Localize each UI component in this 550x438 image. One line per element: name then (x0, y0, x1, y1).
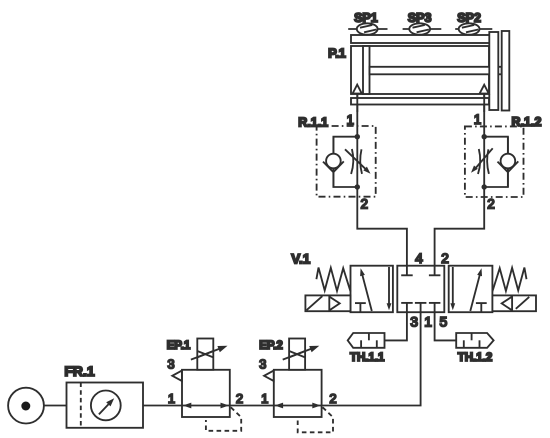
svg-text:TH.1.2: TH.1.2 (458, 352, 493, 364)
valve V.1 right return spring (492, 268, 526, 292)
svg-text:1: 1 (474, 112, 482, 127)
svg-text:1: 1 (261, 391, 268, 406)
cylinder P.1 right port (480, 85, 489, 94)
svg-text:1: 1 (168, 391, 175, 406)
silencer TH.1.1 (348, 333, 385, 348)
cylinder P.1 left port (353, 85, 362, 94)
svg-text:1: 1 (424, 313, 432, 329)
cylinder P.1 sensor rail (351, 35, 490, 43)
svg-text:2: 2 (329, 391, 336, 406)
proximity sensor SP3 (403, 23, 442, 34)
wire: right port line over rail (483, 94, 485, 112)
wire: R.1.2 port 2 to valve port 2 (435, 197, 485, 266)
cylinder P.1 body (351, 46, 489, 94)
wire: valve port 3 to silencer TH.1.1 (385, 312, 407, 340)
wire: cylinder right port to R.1.2 port 1 (483, 93, 485, 197)
R.1.2 check valve (501, 154, 516, 169)
compressed air source (8, 388, 44, 424)
valve V.1 right solenoid pilot (492, 295, 536, 311)
svg-text:1: 1 (346, 112, 354, 127)
EP.2 adjustment solenoid (283, 339, 320, 370)
valve V.1 middle position square (blocked center) (397, 266, 444, 313)
svg-text:EP.1: EP.1 (167, 340, 191, 352)
EP.2 exhaust port 3 triangle (264, 371, 274, 381)
svg-text:2: 2 (487, 197, 495, 212)
valve V.1 right position square (449, 266, 493, 313)
svg-text:2: 2 (441, 250, 449, 266)
proximity sensor SP1 (348, 23, 387, 34)
R.1.2 junction dots (482, 134, 487, 139)
svg-text:3: 3 (410, 313, 418, 329)
svg-text:FR.1: FR.1 (64, 363, 95, 379)
svg-text:2: 2 (361, 197, 369, 212)
EP.1 pilot feedback dashed line (206, 407, 241, 431)
EP.1 exhaust port 3 triangle (172, 371, 182, 381)
wire: left port line over rail (356, 94, 358, 112)
svg-text:TH.1.1: TH.1.1 (350, 352, 385, 364)
svg-text:R.1.2: R.1.2 (512, 115, 542, 129)
R.1.1 enclosure (dash-dot) (317, 126, 376, 197)
valve V.1 left solenoid pilot (305, 295, 350, 311)
pressure regulator EP.1 body (182, 370, 230, 417)
wire: air source to FR.1 (44, 405, 67, 407)
svg-text:2: 2 (236, 391, 243, 406)
EP.2 pilot feedback dashed line (298, 407, 333, 432)
svg-text:SP2: SP2 (457, 11, 481, 25)
svg-text:SP3: SP3 (408, 11, 432, 25)
R.1.1 throttle (351, 149, 353, 174)
svg-text:P.1: P.1 (328, 46, 346, 61)
cylinder P.1 piston (363, 46, 370, 94)
svg-text:R.1.1: R.1.1 (298, 115, 328, 129)
R.1.1 check valve (326, 154, 341, 169)
R.1.2 enclosure (dash-dot) (465, 126, 524, 197)
wire: valve port 5 to silencer TH.1.2 (435, 312, 457, 340)
wire: main supply line FR.1 to EP.1, EP.2 and up to valve port 1 (143, 312, 421, 406)
EP.1 adjustment solenoid (191, 339, 228, 370)
svg-text:V.1: V.1 (291, 251, 311, 266)
proximity sensor SP2 (455, 23, 492, 34)
svg-text:EP.2: EP.2 (259, 340, 282, 352)
cylinder P.1 bottom rail (351, 98, 489, 105)
svg-text:5: 5 (440, 313, 448, 329)
cylinder P.1 yoke plate 2 (502, 31, 510, 111)
filter-regulator FR.1 (67, 383, 144, 428)
silencer TH.1.2 (456, 333, 493, 348)
svg-text:3: 3 (167, 356, 174, 371)
svg-text:SP1: SP1 (354, 11, 378, 25)
svg-text:3: 3 (259, 356, 266, 371)
R.1.1 junction dots (355, 134, 360, 139)
pressure regulator EP.2 body (274, 370, 322, 417)
valve V.1 left return spring (316, 268, 350, 292)
one-way flow control valve R.1.1 (323, 134, 371, 190)
valve V.1 left position square (351, 266, 393, 313)
one-way flow control valve R.1.2 (471, 134, 518, 190)
R.1.2 throttle (478, 149, 480, 174)
svg-text:4: 4 (415, 250, 423, 266)
cylinder P.1 piston rod (370, 67, 502, 75)
wire: cylinder left port to R.1.1 port 1 (356, 93, 358, 197)
cylinder P.1 yoke plate 1 (489, 32, 498, 110)
wire: R.1.1 port 2 to valve port 4 (357, 197, 407, 266)
